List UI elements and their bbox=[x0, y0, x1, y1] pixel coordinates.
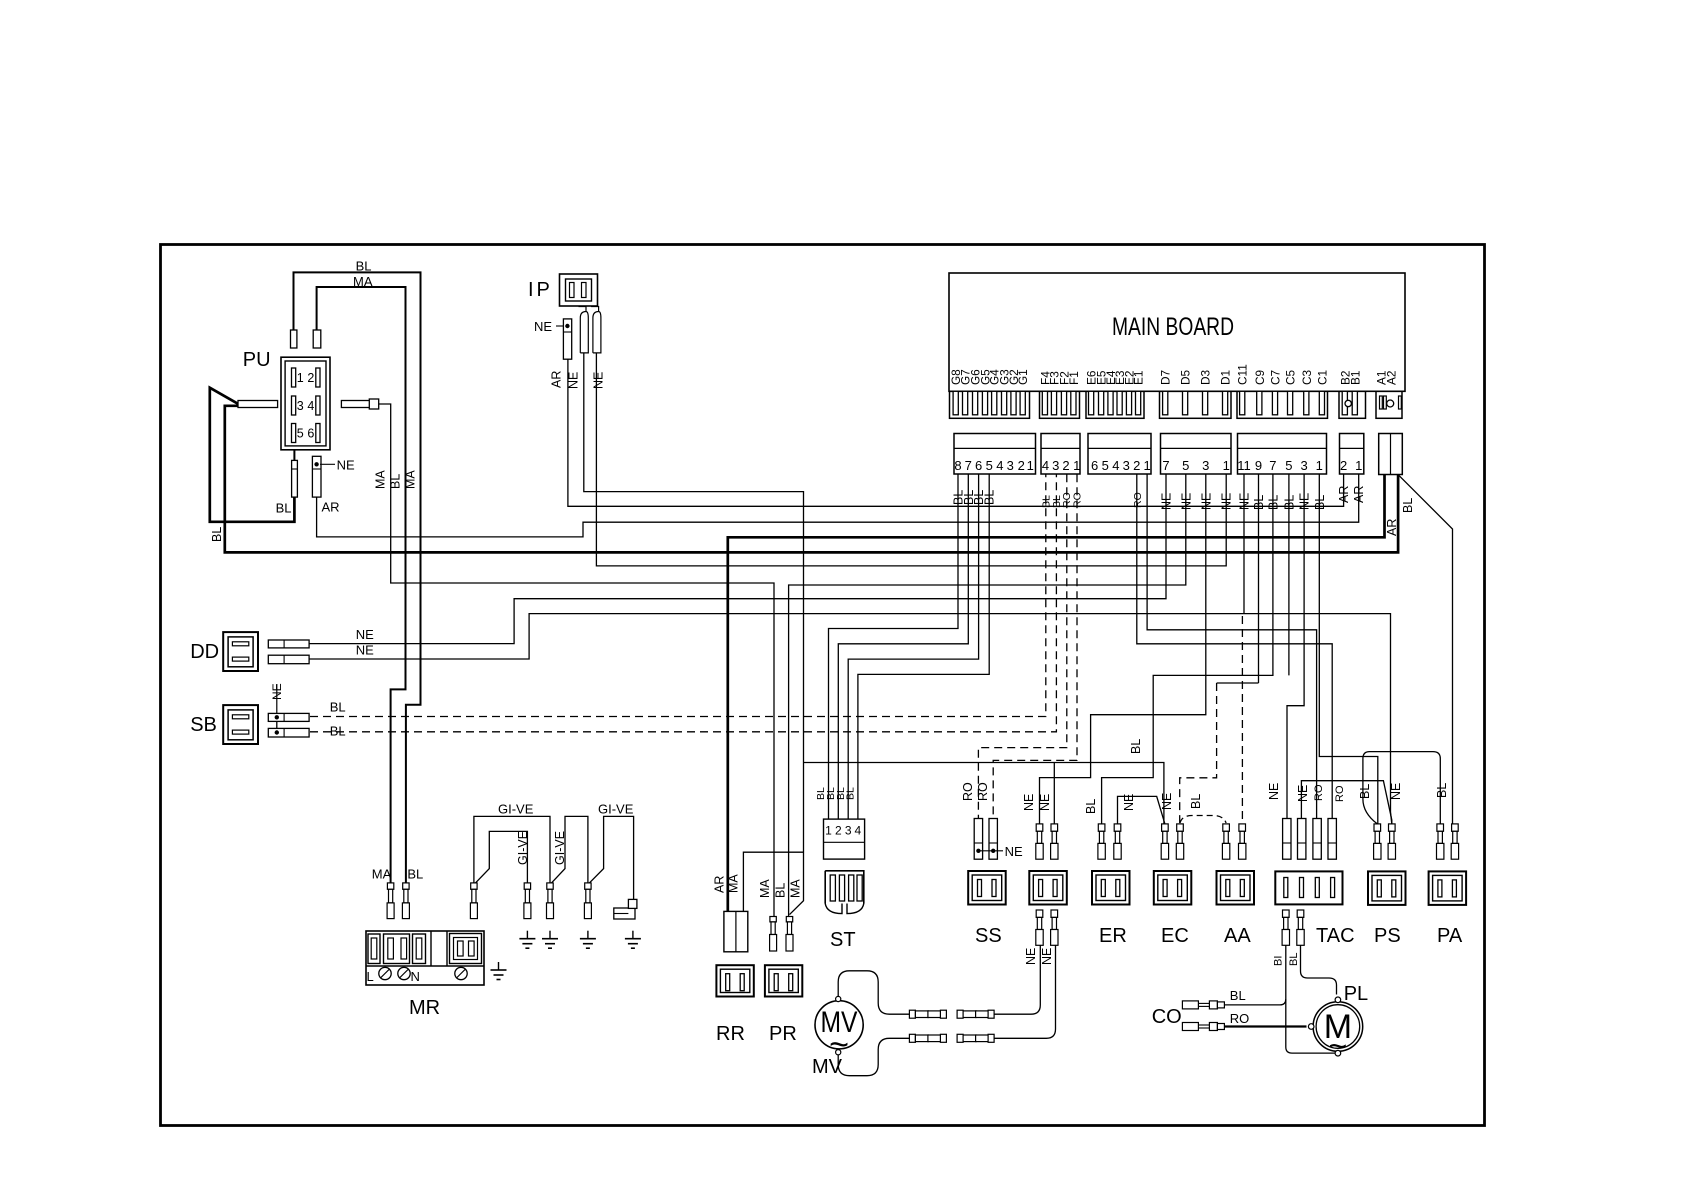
svg-text:NE: NE bbox=[270, 683, 284, 700]
svg-text:RR: RR bbox=[716, 1023, 745, 1045]
svg-text:5: 5 bbox=[1285, 458, 1292, 473]
svg-text:PR: PR bbox=[769, 1023, 797, 1045]
svg-text:4: 4 bbox=[1112, 458, 1119, 473]
svg-text:6: 6 bbox=[975, 458, 982, 473]
svg-text:NE: NE bbox=[1005, 844, 1023, 859]
svg-text:MV: MV bbox=[812, 1056, 843, 1078]
svg-text:BL: BL bbox=[407, 867, 423, 882]
svg-text:NE: NE bbox=[1296, 785, 1310, 802]
svg-text:RO: RO bbox=[1313, 784, 1325, 801]
svg-text:BL: BL bbox=[330, 700, 346, 715]
svg-text:MA: MA bbox=[727, 874, 741, 893]
svg-text:7: 7 bbox=[965, 458, 972, 473]
svg-text:4: 4 bbox=[307, 399, 314, 413]
svg-text:1: 1 bbox=[1316, 458, 1323, 473]
svg-text:AR: AR bbox=[322, 500, 340, 515]
svg-text:BI: BI bbox=[1273, 956, 1285, 966]
svg-text:AR: AR bbox=[713, 876, 727, 893]
svg-text:BL: BL bbox=[1189, 794, 1203, 809]
svg-text:PS: PS bbox=[1374, 925, 1401, 947]
svg-text:RO: RO bbox=[1072, 492, 1084, 508]
svg-text:3: 3 bbox=[1202, 458, 1209, 473]
svg-text:GI-VE: GI-VE bbox=[598, 802, 634, 817]
svg-text:D1: D1 bbox=[1219, 370, 1233, 385]
svg-text:GI-VE: GI-VE bbox=[516, 831, 530, 865]
svg-text:MA: MA bbox=[374, 470, 388, 489]
svg-text:GI-VE: GI-VE bbox=[498, 802, 534, 817]
svg-text:7: 7 bbox=[1162, 458, 1169, 473]
svg-text:BL: BL bbox=[276, 501, 292, 516]
svg-text:BL: BL bbox=[389, 474, 403, 489]
svg-text:NE: NE bbox=[356, 627, 374, 642]
svg-text:MA: MA bbox=[353, 274, 373, 289]
svg-text:3: 3 bbox=[1123, 458, 1130, 473]
svg-text:NE: NE bbox=[1040, 948, 1054, 965]
svg-text:3: 3 bbox=[845, 824, 852, 838]
svg-text:MA: MA bbox=[372, 867, 392, 882]
svg-text:C11: C11 bbox=[1236, 364, 1250, 385]
svg-text:NE: NE bbox=[1389, 783, 1403, 800]
svg-text:MA: MA bbox=[789, 879, 803, 898]
svg-text:ER: ER bbox=[1099, 925, 1127, 947]
svg-text:8: 8 bbox=[954, 458, 961, 473]
svg-text:9: 9 bbox=[1255, 458, 1262, 473]
svg-text:C9: C9 bbox=[1253, 370, 1267, 385]
svg-text:4: 4 bbox=[996, 458, 1003, 473]
svg-text:BL: BL bbox=[1084, 799, 1098, 814]
svg-text:2: 2 bbox=[1340, 458, 1347, 473]
svg-text:NE: NE bbox=[1267, 783, 1281, 800]
svg-text:GI-VE: GI-VE bbox=[553, 831, 567, 865]
svg-text:BL: BL bbox=[1230, 988, 1246, 1003]
svg-text:~: ~ bbox=[1329, 1028, 1348, 1064]
svg-text:3: 3 bbox=[297, 399, 304, 413]
svg-text:3: 3 bbox=[1300, 458, 1307, 473]
svg-text:BL: BL bbox=[1358, 784, 1372, 799]
svg-text:5: 5 bbox=[297, 427, 304, 441]
svg-text:BL: BL bbox=[1129, 739, 1143, 754]
svg-text:PA: PA bbox=[1437, 925, 1463, 947]
svg-text:NE: NE bbox=[1122, 794, 1136, 811]
svg-text:NE: NE bbox=[534, 319, 552, 334]
svg-text:5: 5 bbox=[1182, 458, 1189, 473]
svg-text:BL: BL bbox=[210, 527, 224, 542]
svg-text:1: 1 bbox=[1073, 458, 1080, 473]
svg-text:B1: B1 bbox=[1348, 371, 1362, 385]
svg-text:6: 6 bbox=[1091, 458, 1098, 473]
svg-text:G1: G1 bbox=[1016, 369, 1030, 385]
svg-text:BL: BL bbox=[1435, 783, 1449, 798]
svg-text:RO: RO bbox=[976, 782, 990, 801]
svg-text:1: 1 bbox=[1223, 458, 1230, 473]
svg-text:RO: RO bbox=[961, 782, 975, 801]
svg-text:6: 6 bbox=[307, 427, 314, 441]
svg-text:2: 2 bbox=[307, 371, 314, 385]
svg-text:D3: D3 bbox=[1199, 369, 1213, 385]
svg-text:NE: NE bbox=[1022, 794, 1036, 811]
svg-text:A2: A2 bbox=[1384, 371, 1398, 385]
svg-text:MA: MA bbox=[403, 470, 417, 489]
svg-text:D5: D5 bbox=[1179, 369, 1193, 385]
svg-text:N: N bbox=[411, 969, 420, 984]
svg-text:NE: NE bbox=[592, 372, 606, 389]
svg-text:3: 3 bbox=[1007, 458, 1014, 473]
svg-text:5: 5 bbox=[986, 458, 993, 473]
svg-text:RO: RO bbox=[1334, 785, 1346, 802]
svg-text:5: 5 bbox=[1102, 458, 1109, 473]
svg-text:BL: BL bbox=[845, 787, 857, 800]
svg-text:NE: NE bbox=[1024, 948, 1038, 965]
svg-text:C5: C5 bbox=[1284, 369, 1298, 385]
svg-text:BL: BL bbox=[1288, 953, 1300, 966]
svg-text:BL: BL bbox=[330, 724, 346, 739]
svg-text:PU: PU bbox=[243, 349, 271, 371]
svg-text:1: 1 bbox=[1355, 458, 1362, 473]
svg-text:2: 2 bbox=[1062, 458, 1069, 473]
svg-text:TAC: TAC bbox=[1316, 925, 1355, 947]
svg-text:MR: MR bbox=[409, 997, 440, 1019]
svg-text:1: 1 bbox=[1143, 458, 1150, 473]
svg-text:1: 1 bbox=[825, 824, 832, 838]
svg-text:NE: NE bbox=[1160, 793, 1174, 810]
svg-text:2: 2 bbox=[1133, 458, 1140, 473]
svg-text:4: 4 bbox=[855, 824, 862, 838]
svg-text:AA: AA bbox=[1224, 925, 1251, 947]
svg-text:SS: SS bbox=[975, 925, 1002, 947]
svg-text:4: 4 bbox=[1042, 458, 1049, 473]
svg-text:2: 2 bbox=[1018, 458, 1025, 473]
svg-text:3: 3 bbox=[1052, 458, 1059, 473]
svg-text:C1: C1 bbox=[1315, 370, 1329, 385]
svg-text:NE: NE bbox=[356, 643, 374, 658]
svg-text:2: 2 bbox=[835, 824, 842, 838]
svg-text:BL: BL bbox=[1401, 498, 1415, 513]
svg-text:SB: SB bbox=[190, 714, 217, 736]
svg-text:C3: C3 bbox=[1300, 369, 1314, 385]
svg-text:1: 1 bbox=[1027, 458, 1034, 473]
svg-text:AR: AR bbox=[550, 371, 564, 388]
svg-text:PL: PL bbox=[1344, 983, 1368, 1005]
svg-text:NE: NE bbox=[1038, 794, 1052, 811]
svg-text:EC: EC bbox=[1161, 925, 1189, 947]
svg-text:L: L bbox=[367, 969, 374, 984]
svg-text:NE: NE bbox=[337, 458, 355, 473]
svg-text:DD: DD bbox=[190, 641, 219, 663]
svg-text:1: 1 bbox=[297, 371, 304, 385]
svg-text:C7: C7 bbox=[1269, 370, 1283, 385]
svg-text:RO: RO bbox=[1132, 492, 1144, 508]
svg-text:ST: ST bbox=[830, 929, 856, 951]
svg-text:IP: IP bbox=[528, 279, 553, 301]
svg-text:11: 11 bbox=[1237, 458, 1251, 473]
svg-text:BL: BL bbox=[356, 259, 372, 274]
svg-text:MA: MA bbox=[758, 879, 772, 898]
svg-text:E1: E1 bbox=[1132, 371, 1146, 385]
svg-text:NE: NE bbox=[567, 372, 581, 389]
svg-text:7: 7 bbox=[1269, 458, 1276, 473]
svg-text:MAIN BOARD: MAIN BOARD bbox=[1112, 313, 1234, 341]
svg-text:F1: F1 bbox=[1067, 371, 1081, 385]
svg-text:D7: D7 bbox=[1159, 370, 1173, 385]
svg-text:RO: RO bbox=[1230, 1011, 1250, 1026]
svg-text:CO: CO bbox=[1152, 1006, 1182, 1028]
svg-text:BL: BL bbox=[774, 883, 788, 898]
